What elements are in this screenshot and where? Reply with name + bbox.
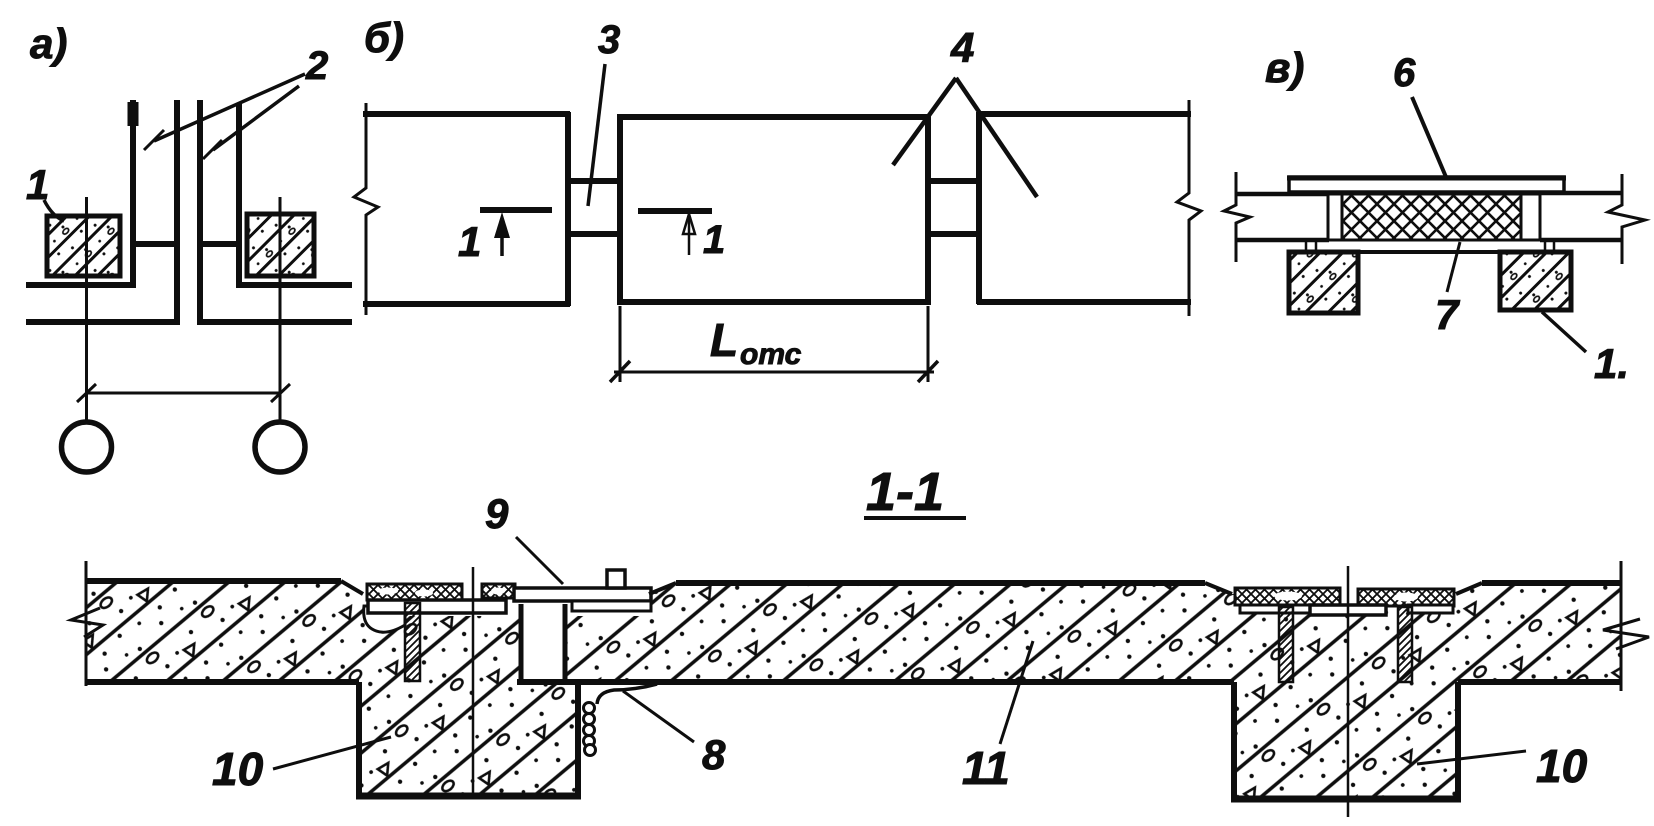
section mark 1 left line [480, 207, 552, 213]
left joint white recess zone [363, 583, 652, 616]
compensator scallops [584, 703, 595, 714]
svg-text:1: 1 [458, 218, 481, 265]
right slab top edge [1540, 191, 1622, 196]
foundation pad right [247, 214, 314, 276]
slab block 1 top edge [363, 111, 570, 117]
right break end [1620, 561, 1623, 691]
cover plate 9 [514, 588, 651, 601]
leader tick left [144, 130, 164, 150]
slab top border [86, 578, 341, 584]
column wall outer-left vertical [130, 100, 136, 288]
left slab bottom edge [1236, 238, 1329, 243]
leader from 1 to pad [44, 200, 64, 221]
right slab bottom edge [1540, 238, 1622, 243]
leader from 8 to compensator [623, 691, 694, 742]
slab block 3 bottom edge [977, 299, 1191, 305]
leader from 9 to plate [516, 537, 563, 584]
plate bolt tab [607, 570, 625, 588]
pile circle left [62, 422, 112, 472]
pile axis right [279, 197, 282, 422]
leader tick right [203, 140, 222, 159]
left slab break end [1224, 172, 1250, 262]
leader from 2 to left column [154, 74, 305, 141]
dimension line Lotc [614, 371, 934, 374]
steel angle armor left [1279, 607, 1293, 682]
pile axis left [85, 197, 88, 422]
dimension tick left [610, 361, 630, 382]
column wall inner-left vertical [174, 100, 180, 325]
leader from 2 to right column [213, 86, 299, 150]
svg-text:отс: отс [740, 338, 802, 371]
steel angle armor [405, 603, 420, 681]
right joint white recess zone [1235, 584, 1454, 607]
left spacer post [1328, 194, 1342, 240]
slab block 3 right break edge [1177, 100, 1201, 316]
tie tick right [271, 384, 290, 402]
leader from 10 right to rib [1417, 751, 1526, 764]
column wall inner-right vertical [197, 100, 203, 325]
central slide plate [1310, 605, 1386, 615]
left anchor plate [368, 600, 506, 613]
anchor plate right [1408, 605, 1453, 613]
slab and ribs hatched body [86, 581, 1621, 799]
leader 4 right leg [956, 78, 1037, 197]
section mark 1 right line [638, 208, 712, 214]
svg-text:9: 9 [485, 490, 509, 537]
slab block 2 [620, 117, 928, 302]
leader from 1. to right pad [1542, 312, 1586, 352]
pad 1 right (v) [1500, 252, 1571, 310]
svg-text:4: 4 [950, 24, 974, 71]
floor line upper-left [26, 282, 136, 288]
slab block 3 left edge [976, 112, 982, 304]
antiseptic gasket block 7 [1342, 194, 1521, 240]
leader from 3 to joint [588, 64, 605, 206]
rib right borders [1231, 682, 1237, 799]
dimension extension right [927, 306, 930, 382]
right spacer post [1521, 194, 1540, 240]
svg-text:3: 3 [598, 18, 620, 62]
leader from 10 to rib [273, 737, 391, 769]
rib left borders [356, 682, 362, 796]
slab bottom border [86, 679, 359, 685]
column rung left pair [133, 241, 177, 247]
svg-text:2: 2 [305, 44, 328, 88]
svg-text:в): в) [1265, 44, 1304, 91]
column wall outer-right vertical [236, 103, 242, 288]
dimension tick right [918, 361, 938, 382]
floor line lower-right [197, 319, 352, 325]
pile circle right [255, 422, 305, 472]
section mark 1 right arrow [688, 218, 691, 255]
joint link 2 bottom [926, 231, 981, 237]
svg-text:L: L [710, 314, 738, 366]
slab block 1 right edge [565, 112, 571, 306]
svg-text:8: 8 [702, 731, 726, 778]
svg-text:6: 6 [1393, 51, 1416, 95]
sealant strip right-joint right [1358, 589, 1454, 606]
right support bar [572, 601, 651, 611]
dimension extension left [619, 306, 622, 382]
svg-text:10: 10 [212, 743, 264, 795]
slab block 3 top edge [977, 111, 1191, 117]
svg-text:7: 7 [1435, 291, 1460, 338]
tie line [87, 392, 281, 395]
right slab break end [1608, 174, 1645, 264]
joint cavity [519, 604, 567, 682]
slab block 1 left break edge [354, 103, 378, 315]
svg-text:1.: 1. [1594, 340, 1629, 387]
joint link 1 top [568, 178, 622, 184]
column rung right pair [200, 241, 239, 247]
compensator hook 8 [597, 684, 657, 704]
white pocket under left plate [364, 606, 405, 632]
svg-text:10: 10 [1536, 740, 1588, 792]
bottom strap [1301, 250, 1558, 254]
sealant strip left [367, 584, 462, 600]
anchor plate left [1240, 605, 1317, 613]
svg-text:1-1: 1-1 [866, 462, 944, 522]
floor line lower-left [26, 319, 180, 325]
svg-text:1: 1 [703, 218, 725, 262]
floor line upper-right [236, 282, 352, 288]
leader from 6 to cover plate [1412, 97, 1446, 177]
leader from 11 to slab [1000, 641, 1033, 744]
tie tick left [77, 384, 96, 402]
leader from 7 to gasket [1447, 242, 1460, 292]
svg-text:а): а) [30, 20, 67, 67]
centerline left joint [472, 567, 475, 795]
centerline right joint [1347, 566, 1350, 817]
cover plate 6 [1289, 177, 1564, 192]
svg-text:б): б) [364, 14, 404, 61]
section mark 1 left arrow [500, 220, 504, 256]
steel angle armor right [1398, 607, 1412, 682]
svg-text:11: 11 [962, 742, 1010, 794]
slab block 1 bottom edge [363, 301, 570, 307]
pad 1 left (v) [1289, 252, 1358, 313]
sealant strip right-joint left [1235, 588, 1340, 605]
joint link 1 bottom [568, 231, 622, 237]
sealant strip middle [482, 584, 515, 598]
foundation pad 1 left [47, 216, 120, 276]
left slab top edge [1236, 192, 1329, 197]
left break end [85, 561, 88, 686]
joint link 2 top [926, 178, 981, 184]
leader 4 left leg [893, 78, 956, 165]
hanger ticks [1306, 242, 1554, 252]
column top blob [128, 102, 139, 126]
